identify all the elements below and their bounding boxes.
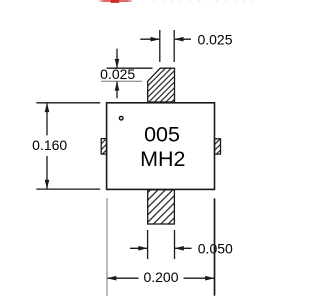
left arrow [130, 247, 147, 249]
svg-text:0.025: 0.025 [100, 66, 135, 82]
dimension: bottom 0.200 (body width) [107, 198, 215, 296]
dimension: top 0.025 [140, 30, 232, 62]
extension line right [214, 198, 216, 295]
extension line left [106, 198, 108, 296]
upper arrow [116, 49, 118, 68]
faint clipped text remnants along top edge [153, 0, 254, 1]
svg-text:005: 005 [144, 122, 180, 146]
extension line left [147, 230, 149, 259]
top terminal tab (hatched, chamfered top-left) [148, 68, 175, 102]
extension line left [159, 30, 161, 62]
extension line right [173, 30, 175, 62]
pin 1 indicator circle [119, 116, 123, 120]
extension line upper [107, 67, 153, 69]
extension line lower [101, 80, 142, 82]
svg-text:0.160: 0.160 [32, 137, 67, 153]
left arrow (points left) [108, 277, 139, 279]
svg-text:0.050: 0.050 [198, 241, 233, 257]
dimension line upper segment [46, 103, 48, 135]
svg-text:0.025: 0.025 [197, 31, 232, 47]
dimension: left 0.025 (chamfer) [100, 49, 152, 99]
left arrow [140, 38, 159, 40]
extension line right [174, 230, 176, 259]
red logo remnant (clipped at top edge) [99, 0, 132, 3]
right arrow [175, 38, 191, 40]
package body outline [107, 103, 215, 190]
bottom terminal tab (hatched) [148, 190, 175, 224]
right arrow [175, 247, 192, 249]
dimension: bottom 0.050 (tab width) [130, 230, 233, 259]
extension line bottom [36, 188, 100, 190]
right side tab (hatched) [215, 139, 221, 154]
svg-text:0.200: 0.200 [143, 269, 178, 285]
svg-text:MH2: MH2 [140, 147, 185, 171]
dimension: left 0.160 (body height) [32, 103, 100, 189]
left side tab (hatched) [101, 139, 106, 155]
right arrow (points right) [184, 277, 215, 279]
dimension line lower segment [46, 156, 48, 189]
extension line top [36, 102, 100, 104]
lower arrow [116, 82, 118, 99]
